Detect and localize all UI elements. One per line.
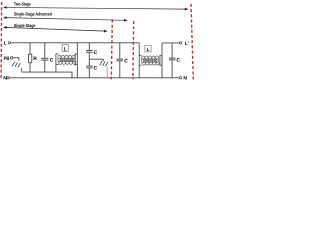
terminal L' (top right) (179, 41, 189, 47)
wire top rail to L' (162, 42, 179, 44)
arrow Single-Stage Advanced (3, 16, 128, 21)
svg-text:C: C (94, 65, 98, 71)
resistor R (29, 43, 32, 72)
arrow Two-Stage (3, 6, 188, 10)
svg-text:L: L (147, 47, 150, 53)
svg-text:Single-Stage Advanced: Single-Stage Advanced (14, 12, 52, 17)
dashed boundary line mid-left (111, 20, 112, 80)
svg-text:C: C (124, 58, 128, 64)
capacitor C mid-right (116, 43, 123, 78)
svg-text:Single-Stage: Single-Stage (14, 23, 36, 28)
capacitor C lower mid (86, 66, 93, 78)
choke L right (common-mode choke) (139, 43, 162, 78)
label C (lower mid cap) (94, 65, 98, 71)
label box L (left choke) (62, 45, 68, 53)
capacitor C right (169, 43, 176, 78)
wire right bus (161, 43, 163, 78)
terminal N (bottom left) (3, 76, 9, 82)
label R (33, 56, 37, 62)
connector hatch marks (left cable symbol) (12, 62, 20, 67)
dashed boundary line mid-right (132, 21, 135, 79)
wire hatch to bottom rail (20, 68, 23, 72)
dashed boundary line left (0, 2, 3, 79)
label C (left cap) (50, 58, 54, 64)
label C (right cap) (176, 58, 180, 64)
winding of choke L left (58, 55, 76, 64)
wire mid bus (right of left choke) (76, 43, 78, 78)
svg-text:R: R (33, 56, 37, 62)
svg-text:C: C (50, 58, 54, 64)
svg-text:L: L (64, 46, 67, 52)
svg-text:N: N (183, 76, 187, 82)
wire to right connector (89, 59, 103, 61)
svg-text:L’: L’ (185, 41, 190, 47)
svg-text:C: C (94, 50, 98, 56)
label box L (right choke) (145, 45, 151, 53)
dashed boundary line right (191, 4, 193, 80)
winding of choke L right (141, 56, 159, 65)
terminal L (top left) (4, 41, 11, 47)
choke L left (common-mode choke) (56, 54, 77, 73)
terminal PB (mid left) (4, 56, 13, 62)
label C (mid-right cap) (124, 58, 128, 64)
svg-text:Two-Stage: Two-Stage (14, 1, 31, 6)
terminal N (bottom right) (179, 76, 187, 82)
capacitor C (input filter, left) (41, 43, 48, 72)
wire hatch2 to bottom rail (106, 67, 108, 78)
connector hatch marks (right cable symbol) (100, 61, 108, 66)
capacitor C upper mid (86, 43, 93, 66)
wire bottom N rail (9, 77, 179, 79)
svg-text:C: C (176, 58, 180, 64)
label Single-Stage Advanced (14, 12, 52, 17)
label Two-Stage (14, 1, 31, 6)
wire top rail L to choke (11, 42, 140, 44)
arrow Single-Stage (3, 26, 108, 32)
svg-text:PB: PB (4, 56, 10, 62)
wire left bottom rail (22, 72, 72, 78)
label C (upper mid cap) (94, 50, 98, 56)
label Single-Stage (14, 23, 36, 28)
wire from PB terminal (13, 58, 19, 61)
svg-text:L: L (4, 41, 7, 47)
